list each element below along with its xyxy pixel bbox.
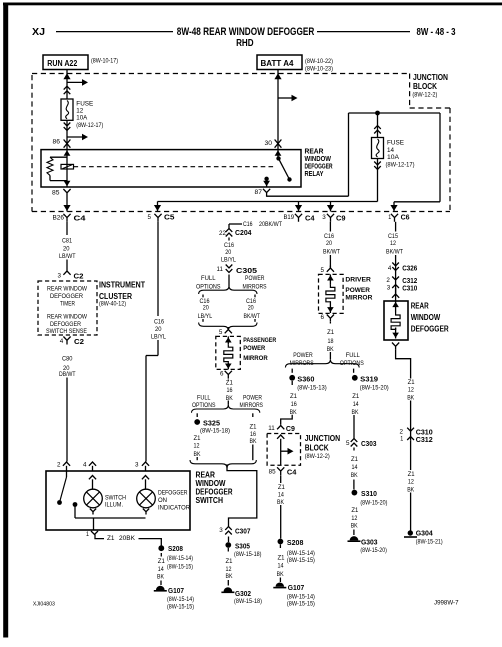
svg-text:RHD: RHD [236,37,254,49]
svg-text:G304: G304 [416,529,434,538]
svg-text:1: 1 [388,214,391,221]
svg-text:20: 20 [225,249,231,256]
svg-text:3: 3 [135,461,139,468]
svg-text:BK: BK [407,395,415,402]
svg-text:DEFOGGER: DEFOGGER [305,164,333,171]
svg-text:REAR WINDOW: REAR WINDOW [47,313,87,320]
svg-text:B26: B26 [53,215,65,222]
svg-text:Z1: Z1 [226,558,233,565]
svg-text:3: 3 [219,527,223,534]
svg-text:11: 11 [217,266,224,273]
svg-text:(8W-15-20): (8W-15-20) [360,386,389,392]
svg-text:C16: C16 [154,319,164,326]
svg-text:(8W-15-21): (8W-15-21) [416,539,443,545]
svg-text:BK: BK [250,438,258,445]
svg-text:C16: C16 [243,222,253,228]
svg-text:5: 5 [321,267,325,274]
svg-text:(8W-40-12): (8W-40-12) [99,301,126,308]
svg-text:RELAY: RELAY [305,171,324,178]
svg-text:XJI04803: XJI04803 [33,602,55,608]
svg-text:POWER: POWER [293,352,313,359]
svg-text:BK: BK [226,395,234,402]
svg-text:12: 12 [194,442,200,449]
svg-text:2: 2 [400,429,404,436]
svg-text:BK: BK [194,451,202,458]
svg-text:10A: 10A [76,115,88,122]
svg-text:POWER: POWER [245,275,265,282]
svg-text:(8W-15-20): (8W-15-20) [360,500,387,506]
svg-text:(8W-10-22): (8W-10-22) [305,59,333,65]
svg-text:(8W-15-15): (8W-15-15) [167,605,194,611]
svg-text:BLOCK: BLOCK [305,443,329,452]
svg-text:WINDOW: WINDOW [305,156,332,163]
svg-text:G107: G107 [288,583,305,592]
svg-text:85: 85 [269,468,276,475]
svg-text:20: 20 [63,246,70,253]
svg-text:20BK: 20BK [119,535,136,542]
svg-text:Z1: Z1 [250,424,257,431]
svg-text:C80: C80 [62,356,73,363]
svg-text:S319: S319 [360,374,378,383]
svg-text:85: 85 [52,190,60,197]
svg-text:C16: C16 [224,242,234,249]
svg-text:FUSE: FUSE [76,100,94,107]
svg-text:4: 4 [83,461,87,468]
svg-text:LB/WT: LB/WT [59,253,76,260]
svg-text:MIRROR: MIRROR [243,355,268,362]
svg-text:Z1: Z1 [194,435,201,442]
svg-text:BK: BK [407,486,415,493]
svg-text:12: 12 [408,387,414,394]
svg-text:86: 86 [53,139,61,146]
svg-text:C303: C303 [361,439,377,448]
svg-text:DB/WT: DB/WT [59,371,76,378]
svg-text:S305: S305 [235,541,250,550]
svg-text:WINDOW: WINDOW [411,313,441,322]
svg-text:C9: C9 [286,424,295,433]
svg-text:C305: C305 [236,266,257,275]
svg-text:DEFOGGER: DEFOGGER [50,293,83,300]
svg-text:(8W-12-2): (8W-12-2) [412,92,437,99]
svg-text:C312: C312 [416,435,433,444]
svg-text:(8W-15-14): (8W-15-14) [167,556,193,562]
svg-text:OPTIONS: OPTIONS [196,283,221,290]
svg-text:C15: C15 [388,233,398,240]
svg-text:30: 30 [265,140,273,147]
svg-text:Z1: Z1 [226,380,233,387]
svg-text:DEFOGGER: DEFOGGER [411,324,449,333]
svg-text:6: 6 [220,371,224,378]
svg-text:C326: C326 [402,264,417,273]
svg-text:BK: BK [277,499,285,506]
svg-text:5: 5 [148,214,152,221]
svg-text:Z1: Z1 [278,484,285,491]
svg-text:3: 3 [322,214,326,221]
svg-text:12: 12 [76,108,83,115]
svg-text:RUN A22: RUN A22 [47,59,78,68]
svg-text:BK/WT: BK/WT [386,249,403,256]
svg-text:Z1: Z1 [107,535,115,542]
svg-text:16: 16 [227,387,233,394]
svg-text:REAR: REAR [411,302,429,311]
svg-text:C9: C9 [336,213,346,222]
svg-text:14: 14 [352,464,358,471]
svg-text:(8W-15-15): (8W-15-15) [287,601,315,607]
svg-text:SWITCH: SWITCH [105,495,126,502]
svg-text:BK: BK [352,409,360,416]
svg-text:(8W-15-13): (8W-15-13) [297,386,327,392]
svg-text:BK/WT: BK/WT [244,313,261,320]
svg-text:LB/YL: LB/YL [151,334,166,341]
svg-text:B19: B19 [284,214,295,221]
svg-text:8W - 48 - 3: 8W - 48 - 3 [417,26,456,38]
svg-text:INDICATOR: INDICATOR [158,505,190,512]
svg-text:CLUSTER: CLUSTER [99,292,132,301]
svg-text:JUNCTION: JUNCTION [305,434,341,443]
svg-text:C2: C2 [74,337,84,346]
svg-text:C4: C4 [287,467,297,476]
svg-text:G107: G107 [168,586,184,595]
svg-text:LB/YL: LB/YL [198,313,213,320]
svg-text:Z1: Z1 [278,555,285,562]
svg-text:JUNCTION: JUNCTION [413,73,448,82]
svg-text:POWER: POWER [345,287,370,294]
svg-text:(8W-15-18): (8W-15-18) [234,552,262,558]
svg-text:C16: C16 [324,233,334,240]
svg-text:LB/YL: LB/YL [221,257,236,264]
svg-text:PASSENGER: PASSENGER [243,337,276,344]
svg-text:POWER: POWER [243,345,265,352]
svg-text:BK: BK [157,574,165,581]
svg-text:16: 16 [291,401,297,408]
svg-text:20BK/WT: 20BK/WT [259,222,282,228]
svg-text:4: 4 [388,265,392,272]
svg-text:C6: C6 [401,213,410,222]
svg-text:87: 87 [255,189,263,196]
svg-text:ILLUM.: ILLUM. [105,502,123,509]
svg-text:1: 1 [86,531,89,538]
svg-text:20: 20 [248,305,254,312]
svg-text:(8W-12-17): (8W-12-17) [76,123,103,129]
svg-text:REAR WINDOW: REAR WINDOW [47,286,87,293]
svg-text:Z1: Z1 [351,456,358,463]
svg-text:18: 18 [328,338,334,345]
svg-text:BK: BK [351,472,359,479]
svg-text:(8W-15-18): (8W-15-18) [234,599,262,605]
svg-text:12: 12 [408,479,414,486]
svg-text:(8W-10-17): (8W-10-17) [91,59,118,65]
svg-text:C204: C204 [235,228,252,237]
svg-text:22: 22 [219,230,226,237]
svg-text:5: 5 [346,440,350,447]
svg-text:C4: C4 [305,213,315,222]
svg-text:(8W-15-15): (8W-15-15) [287,558,315,564]
svg-text:C4: C4 [74,213,87,222]
svg-text:14: 14 [278,562,284,569]
svg-text:FULL: FULL [346,352,361,359]
svg-text:G303: G303 [361,537,378,546]
svg-text:BK: BK [290,409,298,416]
svg-text:S310: S310 [361,489,377,498]
svg-text:DRIVER: DRIVER [345,277,371,284]
svg-text:Z1: Z1 [352,393,359,400]
svg-text:FULL: FULL [201,275,216,282]
svg-text:FUSE: FUSE [387,140,405,147]
svg-text:5: 5 [219,329,223,336]
svg-text:C2: C2 [74,272,84,281]
svg-text:INSTRUMENT: INSTRUMENT [99,280,145,289]
svg-text:20: 20 [326,240,332,247]
svg-text:(8W-12-17): (8W-12-17) [386,162,415,168]
svg-text:S208: S208 [168,544,183,553]
svg-text:Z1: Z1 [408,379,415,386]
svg-text:14: 14 [278,491,284,498]
svg-text:1: 1 [400,436,403,443]
svg-text:BK: BK [277,571,285,578]
svg-text:SWITCH: SWITCH [196,495,224,505]
svg-text:(8W-15-15): (8W-15-15) [167,565,193,571]
svg-text:14: 14 [387,147,394,154]
svg-text:20: 20 [203,305,209,312]
svg-text:S208: S208 [287,538,304,547]
svg-text:Z1: Z1 [290,393,297,400]
svg-text:2: 2 [386,277,390,284]
svg-text:(8W-15-20): (8W-15-20) [360,548,387,554]
svg-text:S325: S325 [203,418,220,427]
svg-text:3: 3 [387,285,391,292]
svg-text:12: 12 [390,240,396,247]
svg-text:(8W-15-14): (8W-15-14) [287,594,315,600]
svg-text:(8W-10-23): (8W-10-23) [305,67,333,73]
svg-text:MIRRORS: MIRRORS [290,360,314,367]
svg-text:XJ: XJ [32,26,45,38]
svg-text:4: 4 [60,338,64,345]
svg-text:SWITCH SENSE: SWITCH SENSE [46,328,87,335]
svg-text:MIRRORS: MIRRORS [243,283,267,290]
svg-text:12: 12 [351,515,357,522]
svg-text:11: 11 [268,425,275,432]
svg-text:20: 20 [155,326,162,333]
svg-text:MIRRORS: MIRRORS [240,402,264,409]
svg-text:12: 12 [226,566,232,573]
svg-text:Z1: Z1 [408,471,415,478]
svg-text:REAR: REAR [305,149,324,156]
svg-text:C81: C81 [62,238,72,245]
svg-text:G302: G302 [235,589,251,598]
svg-text:TIMER: TIMER [60,300,75,307]
svg-text:BLOCK: BLOCK [413,82,437,91]
svg-text:Z1: Z1 [351,507,358,514]
svg-text:14: 14 [158,566,164,573]
svg-text:2: 2 [57,461,61,468]
svg-text:6: 6 [321,314,325,321]
svg-text:Z1: Z1 [158,558,165,565]
svg-text:BK: BK [226,573,234,580]
svg-text:FULL: FULL [197,394,211,401]
svg-text:OPTIONS: OPTIONS [192,402,216,409]
svg-text:(8W-15-18): (8W-15-18) [200,428,230,434]
svg-text:C307: C307 [235,526,251,535]
svg-text:14: 14 [353,401,359,408]
svg-text:ON: ON [158,497,167,504]
svg-text:3: 3 [58,273,62,280]
svg-text:S360: S360 [297,374,314,383]
svg-text:(8W-15-14): (8W-15-14) [167,597,194,603]
svg-text:10A: 10A [387,154,400,161]
svg-text:BATT A4: BATT A4 [261,59,295,68]
svg-text:BK/WT: BK/WT [323,249,340,256]
svg-text:(8W-12-2): (8W-12-2) [305,453,330,460]
svg-text:POWER: POWER [243,394,262,401]
svg-text:OPTIONS: OPTIONS [340,360,364,367]
svg-text:J998W-7: J998W-7 [434,601,459,607]
svg-text:C5: C5 [164,213,175,222]
svg-text:BK: BK [351,523,359,530]
svg-text:MIRROR: MIRROR [345,295,372,302]
svg-text:DEFOGGER: DEFOGGER [50,321,81,328]
svg-text:DEFOGGER: DEFOGGER [158,489,188,496]
svg-text:(8W-15-14): (8W-15-14) [287,551,315,557]
svg-text:Z1: Z1 [327,329,334,336]
svg-text:16: 16 [250,431,256,438]
svg-text:C310: C310 [402,284,417,293]
